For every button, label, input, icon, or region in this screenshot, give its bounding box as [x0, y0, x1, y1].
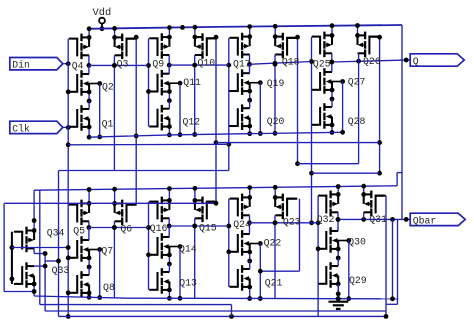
wire Q14 drain to output node	[168, 226, 170, 237]
wire Q14 body tap	[169, 244, 182, 249]
wire Q31 gate vertical	[385, 196, 387, 305]
transistor Q5 (PMOS)	[69, 200, 89, 226]
transistor Q19 (NMOS)	[230, 69, 250, 95]
wire stageB2 output to B3 gate	[169, 224, 229, 229]
wire Q5 source to Vdd rail	[87, 187, 92, 206]
transistor Q11 (NMOS)	[149, 70, 169, 96]
svg-text:Q29: Q29	[349, 275, 367, 286]
svg-text:Q19: Q19	[267, 78, 285, 89]
svg-text:Q31: Q31	[369, 214, 387, 225]
wire Q20 drain to chain node	[249, 100, 251, 108]
transistor Q30 (NMOS)	[318, 227, 338, 253]
wire Q28 source to bus	[330, 123, 335, 135]
wire Q31 gate lead	[376, 195, 386, 197]
wire Q19 body tap	[250, 80, 263, 85]
transistor Q16 (PMOS)	[149, 197, 169, 223]
wire Q18 source to Vdd rail	[273, 24, 278, 39]
wire Q15 source to Vdd rail	[193, 186, 198, 203]
Vdd terminal	[99, 18, 105, 24]
wire stage4 output to Q pin	[329, 58, 410, 65]
wire routing staircase 2	[384, 219, 398, 318]
wire Q6 drain down	[112, 221, 117, 297]
wire Q17 drain to output node	[247, 55, 252, 67]
svg-text:Q: Q	[413, 56, 419, 67]
wire Q27 body tap	[332, 79, 345, 84]
wire Vdd rail	[87, 25, 402, 30]
transistor Q31 (PMOS)	[364, 191, 384, 217]
transistor Q1 (NMOS)	[69, 105, 89, 131]
wire Q27 body tap down to bus	[340, 82, 345, 135]
wire Q21 source to bus	[247, 285, 252, 301]
wire Q28 drain to chain node	[331, 99, 333, 107]
wire qbar feedback down	[390, 219, 395, 301]
input pin Din	[10, 58, 63, 71]
wire Q26 gate vertical	[377, 35, 382, 176]
transistor Q6 (PMOS)	[115, 200, 135, 226]
svg-text:Q20: Q20	[267, 116, 285, 127]
svg-text:Din: Din	[12, 60, 30, 71]
wire Q9 source to Vdd rail	[167, 25, 172, 39]
svg-text:Q16: Q16	[150, 223, 168, 234]
wire Q29 drain to chain node	[337, 258, 339, 266]
wire Q30 body tap down to bus	[346, 241, 351, 302]
wire Q27 source to chain node	[330, 88, 335, 102]
wire Q23 gate link	[258, 269, 300, 274]
wire Q4 source to Vdd rail	[87, 26, 92, 39]
svg-text:Q21: Q21	[265, 278, 283, 289]
svg-text:Q9: Q9	[152, 59, 164, 70]
wire Q9 drain to output node	[167, 55, 172, 68]
wire Q30 body tap	[338, 238, 351, 243]
svg-text:Q4: Q4	[72, 60, 84, 71]
wire Q19 drain to output node	[249, 64, 251, 73]
wire Q22 drain to output node	[249, 223, 251, 234]
wire Q18 gate vertical	[295, 35, 300, 166]
transistor Q34 (PMOS)	[14, 227, 34, 253]
wire Q22 source to chain node	[247, 250, 252, 264]
svg-text:Q1: Q1	[102, 118, 114, 129]
wire Din/Clk gate bus stage1 column	[66, 39, 71, 319]
wire Q8 source to bus	[87, 291, 92, 300]
output pin Q	[410, 54, 464, 67]
svg-text:Q5: Q5	[73, 225, 85, 236]
transistor Q23 (PMOS)	[275, 194, 295, 220]
wire Q7 source to chain node	[87, 256, 92, 270]
wire stage3 output to stage4 gate	[250, 61, 312, 66]
wire Q15 drain down	[192, 218, 197, 298]
wire Q23 drain down	[273, 215, 278, 298]
wire Q6 gate lead	[127, 204, 137, 206]
wire Clk to gate wire	[63, 125, 71, 130]
svg-text:Q2: Q2	[102, 81, 114, 92]
svg-text:Q22: Q22	[264, 238, 282, 249]
transistor Q17 (PMOS)	[230, 33, 250, 59]
wire Q10 drain down	[192, 55, 197, 137]
wire Q23 gate lead	[287, 198, 297, 200]
wire Q6 source to Vdd rail	[112, 187, 117, 206]
wire Q7 drain to output node	[88, 228, 90, 241]
svg-text:Q6: Q6	[120, 224, 132, 235]
svg-text:Q26: Q26	[363, 56, 381, 67]
transistor Q14 (NMOS)	[149, 233, 169, 259]
transistor Q25 (PMOS)	[312, 32, 332, 57]
wire Q34 drain down	[34, 248, 47, 256]
svg-text:Q34: Q34	[47, 228, 65, 239]
transistor Q18 (PMOS)	[275, 33, 295, 59]
wire Q23 source to Vdd rail	[273, 185, 278, 200]
wire Q26 gate lead	[369, 36, 379, 38]
svg-text:Qbar: Qbar	[413, 215, 437, 226]
wire Q15 gate lead	[207, 201, 217, 203]
wire Q23 gate vertical	[299, 199, 301, 272]
wire Q4 drain to output node	[87, 55, 92, 68]
wire Q14 source to chain node	[167, 253, 172, 267]
ground symbol bars	[329, 302, 349, 309]
wire Clk link	[68, 143, 229, 146]
svg-text:Q10: Q10	[198, 58, 216, 69]
wire Q2 source to chain node	[87, 90, 92, 104]
input pin Clk	[10, 121, 63, 134]
wire stage3 gate bus	[59, 38, 387, 319]
wire Vdd stub	[100, 24, 105, 31]
wire Q1 drain to chain node	[88, 101, 90, 109]
wire Q19 source to chain node	[247, 89, 252, 103]
transistor Q29 (NMOS)	[318, 262, 338, 288]
svg-text:Q7: Q7	[101, 246, 113, 257]
wire stageB3 output to B4 gate	[250, 220, 319, 225]
wire Q1 source to bus	[87, 125, 92, 140]
wire Q22 body tap down to bus	[258, 244, 263, 301]
wire Q24 source to Vdd rail	[247, 185, 252, 200]
wire routing H5	[4, 201, 218, 206]
wire Q8 drain to chain node	[88, 267, 90, 275]
wire top-row bus	[89, 132, 341, 137]
output pin Qbar	[410, 213, 465, 226]
wire Q10 gate lead	[207, 37, 217, 39]
wire stage4 gate link	[312, 172, 380, 174]
wire stageB2 gate bus	[146, 202, 151, 290]
transistor Q28 (NMOS)	[312, 103, 332, 129]
svg-text:Q24: Q24	[233, 219, 251, 230]
wire stageB3 gate bus	[226, 199, 231, 287]
transistor Q15 (PMOS)	[195, 197, 215, 223]
wire stageB4 gate bus	[316, 196, 321, 317]
svg-text:Q25: Q25	[313, 59, 331, 70]
transistor Q24 (PMOS)	[230, 194, 250, 220]
wire Q5 drain to output node	[87, 221, 92, 230]
transistor Q21 (NMOS)	[230, 265, 250, 291]
wire Q7 body tap down to bus	[97, 250, 102, 300]
wire Q32 source to Vdd rail	[336, 184, 341, 197]
svg-text:Q27: Q27	[348, 77, 366, 88]
wire Q19 body tap down to bus	[258, 83, 263, 136]
svg-text:Q3: Q3	[117, 59, 129, 70]
wire Q2 drain to output node	[88, 65, 90, 74]
wire Q16 drain to output node	[167, 218, 172, 228]
wire Q13 source to bus	[167, 288, 172, 301]
svg-text:Q32: Q32	[317, 214, 335, 225]
wire Q33 source down	[32, 282, 37, 296]
wire Q13 drain to chain node	[168, 264, 170, 272]
wire Q30 source to chain node	[336, 247, 341, 261]
wire Q11 drain to output node	[168, 65, 170, 74]
wire clk to inverter gate	[12, 245, 71, 250]
wire stageB4 output to Qbar pin	[336, 217, 411, 222]
wire Q32 drain to output node	[336, 212, 341, 222]
wire Q34 source to rail	[32, 190, 37, 233]
transistor Q2 (NMOS)	[69, 70, 89, 96]
wire Q20 source to bus	[247, 124, 252, 136]
wire Q3 gate lead	[127, 38, 137, 40]
transistor Q8 (NMOS)	[69, 271, 89, 297]
wire Q12 drain to chain node	[168, 101, 170, 109]
svg-text:Q33: Q33	[52, 265, 70, 276]
wire Q27 drain to output node	[331, 62, 333, 72]
wire Q25 source to Vdd rail	[330, 23, 335, 37]
ground symbol stem	[336, 284, 341, 302]
wire Q2 body tap down to bus	[97, 84, 102, 140]
transistor Q13 (NMOS)	[149, 268, 169, 294]
transistor Q12 (NMOS)	[149, 105, 169, 130]
wire Q output feedback to Q18 gate	[298, 61, 359, 164]
wire Q26 drain down to Q wire	[358, 53, 360, 61]
wire Q22 body tap	[250, 241, 263, 246]
wire Q11 source to chain node	[167, 89, 172, 103]
wire Q10 source to Vdd rail	[193, 25, 198, 40]
svg-text:Q30: Q30	[348, 237, 366, 248]
transistor Q4 (PMOS)	[69, 34, 89, 60]
transistor Q20 (NMOS)	[230, 104, 250, 129]
wire Q7 body tap	[89, 247, 102, 252]
svg-text:Clk: Clk	[12, 123, 30, 134]
transistor Q3 (PMOS)	[115, 34, 135, 60]
svg-text:Q11: Q11	[183, 77, 201, 88]
wire Q14 body tap down to bus	[178, 247, 183, 301]
wire Q26 source to Vdd rail	[355, 23, 360, 38]
wire Q21 drain to chain node	[249, 261, 251, 269]
wire stageB1 output to B2 gate	[89, 225, 149, 230]
wire stage2 gate bus	[146, 38, 151, 126]
wire Q33/Q34 gate wire	[10, 232, 15, 284]
svg-text:Q23: Q23	[283, 217, 301, 228]
wire Q3 source to Vdd rail	[112, 26, 117, 40]
wire Q33 drain to out	[34, 264, 47, 269]
wire bottom bus	[34, 296, 398, 299]
svg-text:Q17: Q17	[233, 58, 251, 69]
wire Q18 gate lead	[287, 37, 297, 39]
transistor Q32 (PMOS)	[318, 191, 338, 217]
wire Q3 drain down	[112, 55, 117, 170]
svg-text:Q15: Q15	[199, 223, 217, 234]
wire Q11 body tap	[169, 81, 182, 86]
wire stage1 output to stage2 gate	[89, 63, 149, 68]
wire Q/Qbar right-edge vertical	[401, 25, 403, 219]
wire Q11 body tap down to bus	[178, 83, 183, 137]
wire stage4 gate bus	[309, 37, 314, 226]
transistor Q33 (NMOS)	[14, 262, 34, 288]
wire Q10-Q26 gate link	[216, 142, 380, 144]
wire Q18 drain down	[273, 55, 278, 136]
wire bottom-row Vdd rail	[34, 186, 397, 190]
wire routing left edge	[4, 203, 34, 291]
wire Q31 source to Vdd rail	[361, 184, 366, 197]
wire Q25 drain to output node	[329, 53, 334, 64]
wire Q2 body tap	[89, 81, 102, 86]
wire clkbar link to clk bus	[45, 259, 61, 264]
svg-text:Q8: Q8	[103, 282, 115, 293]
svg-text:Q14: Q14	[179, 244, 197, 255]
svg-text:Q18: Q18	[282, 56, 300, 67]
wire Din to gate wire	[63, 61, 71, 66]
wire Q24 drain to output node	[247, 215, 252, 225]
transistor Q7 (NMOS)	[69, 236, 89, 262]
wire Vdd feed to bottom rail	[397, 173, 402, 186]
svg-text:Q12: Q12	[183, 117, 201, 128]
transistor Q27 (NMOS)	[312, 68, 332, 94]
wire Q10/Q15 gate vertical	[214, 35, 219, 202]
wire Q30 drain to output node	[337, 219, 339, 231]
wire stage2 output to stage3 gate	[169, 63, 229, 68]
wire Q29 source to bus	[336, 282, 341, 302]
wire Q17 source to Vdd rail	[247, 24, 252, 39]
wire Q31 drain to Qbar wire	[363, 212, 365, 219]
transistor Q9 (PMOS)	[149, 33, 169, 59]
wire Q3/Q6 gate vertical	[134, 35, 139, 205]
wire routing staircase 1	[40, 190, 232, 316]
wire clkbar distribution	[45, 254, 386, 312]
wire Q12 source to bus	[167, 124, 172, 137]
transistor Q26 (PMOS)	[358, 32, 378, 57]
wire Q16 source to Vdd rail	[167, 186, 172, 203]
transistor Q10 (PMOS)	[195, 33, 215, 59]
svg-text:Q28: Q28	[348, 116, 366, 127]
transistor Q22 (NMOS)	[230, 230, 250, 256]
svg-text:Q13: Q13	[179, 278, 197, 289]
